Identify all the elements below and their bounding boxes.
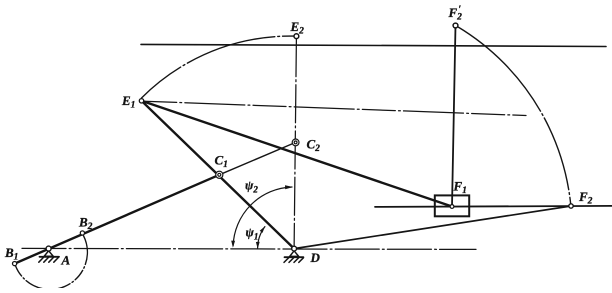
joint C1 (double circle): [216, 171, 223, 178]
joint E2: [294, 34, 299, 39]
link: thin line C1-C2: [219, 142, 295, 174]
link: line E1-C1-D: [142, 101, 295, 249]
link: crank line B1-A-B2-C1: [15, 175, 220, 264]
joint C2 (double circle): [292, 139, 299, 146]
wire: dash-dot line from E1 to the right: [144, 101, 526, 115]
joint E1: [139, 99, 143, 103]
arrow psi1 lower: [256, 242, 260, 249]
joint F1: [450, 205, 454, 209]
slider block at F1: [435, 195, 469, 216]
arrow psi2 lower: [231, 241, 235, 248]
angle psi1 arc at D: [258, 227, 265, 248]
arc: path of F about D, from F2' to F2: [457, 27, 570, 205]
joint B2: [80, 231, 84, 235]
joint D (fixed pivot): [292, 246, 297, 251]
svg-text:D: D: [310, 250, 321, 265]
wire: horizontal slider guide line through F1 and F2: [375, 206, 612, 207]
arrow psi2 upper: [285, 185, 293, 189]
arc: crank circle about A, from B1 to B2: [16, 236, 88, 290]
link: line D-F2: [294, 206, 571, 249]
joint F2: [569, 204, 573, 208]
ground hatching at A: [39, 251, 59, 262]
wire: horizontal dash-dot centerline through A and D: [22, 248, 476, 249]
link: line E1-F1: [142, 101, 453, 207]
joint A (fixed pivot): [46, 246, 51, 251]
svg-text:A: A: [61, 253, 71, 268]
arc: path of E about D, from E1 to E2: [142, 36, 295, 98]
joint B1: [13, 262, 17, 266]
arrowheads of angle arcs: [231, 185, 293, 249]
link: line F1-F2': [452, 26, 456, 207]
joint F2': [453, 23, 458, 28]
arrow psi1 upper: [260, 226, 265, 233]
ground hatching at D: [284, 251, 303, 263]
wire: vertical dash-dot centerline E2 to D: [294, 39, 296, 249]
wire: top horizontal reference line: [141, 44, 606, 46]
svg-text:F2′: F2′: [448, 5, 463, 23]
angle psi2 arc at D: [233, 187, 292, 246]
